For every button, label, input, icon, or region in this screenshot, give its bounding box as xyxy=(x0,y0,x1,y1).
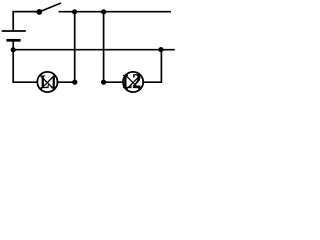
node: corner dot right of L1 xyxy=(72,80,77,85)
battery: long positive plate xyxy=(2,30,26,32)
node B junction dot on top rail xyxy=(101,9,106,14)
wire: right vertical up to middle rail xyxy=(160,50,162,83)
node A junction dot on top rail xyxy=(72,9,77,14)
wire: vertical from node B down to L2 corner xyxy=(103,12,105,82)
lamp L2 circle xyxy=(123,72,143,92)
wire: battery top lead xyxy=(12,11,14,30)
wire: bottom wire to lamp L2 xyxy=(104,81,123,83)
switch S blade xyxy=(39,3,61,12)
wire: top rail right segment xyxy=(59,11,171,13)
lamp L1 circle xyxy=(37,72,57,92)
wire: battery bottom lead xyxy=(12,42,14,50)
wire: lamp L1 right stub xyxy=(58,81,75,83)
wire: top rail left segment (battery + to switch) xyxy=(13,11,40,13)
node: battery negative junction dot xyxy=(11,47,16,52)
wire: vertical from node A down to L1 corner xyxy=(74,12,76,82)
svg-text:2: 2 xyxy=(132,71,141,94)
lamp L1 cross xyxy=(41,76,54,89)
svg-text:1: 1 xyxy=(50,71,57,93)
switch S (open) pivot dot xyxy=(36,9,42,15)
wire: bottom wire to lamp L1 xyxy=(13,81,38,83)
svg-text:L: L xyxy=(40,71,49,93)
lamp L2 cross xyxy=(126,76,139,89)
battery: short negative plate xyxy=(6,39,20,42)
wire: lamp L2 right stub xyxy=(143,81,161,83)
background xyxy=(0,0,180,95)
wire: left vertical down to lamp L1 loop xyxy=(12,50,14,83)
node: corner dot left of L2 xyxy=(101,80,106,85)
node: middle rail right junction dot xyxy=(158,47,163,52)
svg-text:L: L xyxy=(123,71,132,93)
wire: middle rail xyxy=(13,49,175,51)
